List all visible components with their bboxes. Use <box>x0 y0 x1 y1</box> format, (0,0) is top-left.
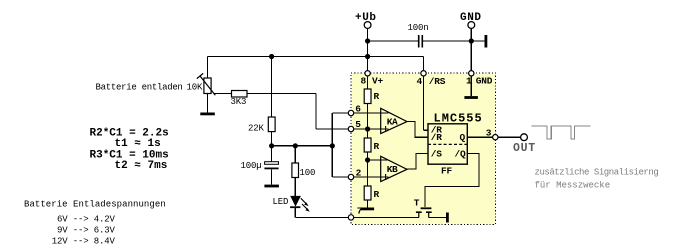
svg-text:12V --> 8.4V: 12V --> 8.4V <box>52 237 116 247</box>
GND rail bar (transistor source) <box>446 213 449 223</box>
svg-text:100: 100 <box>300 168 316 178</box>
pin 5 <box>348 126 353 131</box>
svg-text:/R: /R <box>431 132 443 143</box>
svg-text:8: 8 <box>361 76 367 87</box>
flip-flop FF box <box>428 124 467 177</box>
svg-text:100n: 100n <box>408 23 429 33</box>
resistor R 3K3 <box>232 91 248 98</box>
battery discharge voltages text block <box>24 200 166 247</box>
svg-text:2: 2 <box>356 168 362 179</box>
wire pin7 inside to transistor drain <box>351 216 419 218</box>
node 22K/C1 <box>269 143 274 148</box>
pin 1 <box>469 71 474 76</box>
node +Ub/pot rail <box>365 54 370 59</box>
wire cap to GND node <box>423 40 471 42</box>
wire bus node row <box>272 145 333 147</box>
wire chain tap to KB minus <box>368 159 389 161</box>
svg-text:7: 7 <box>357 206 363 217</box>
wire chain R3 to internal ground <box>367 200 369 208</box>
wire pin4 into FF R1 input <box>424 129 429 131</box>
svg-text:OUT: OUT <box>513 142 536 155</box>
resistor R 100 <box>292 163 299 178</box>
capacitor C1 100u <box>264 162 278 170</box>
wire LED to pin 7 <box>295 216 351 218</box>
wire chain R1-R2 <box>367 104 369 139</box>
wire pin 3 to OUT terminal <box>495 136 521 138</box>
wire KA output to FF <box>407 122 429 138</box>
wire +Ub rail to potentiometer <box>208 56 424 58</box>
svg-text:R: R <box>374 189 380 200</box>
svg-text:22K: 22K <box>248 124 265 134</box>
transistor T (discharge MOSFET) <box>414 197 432 217</box>
svg-text:KB: KB <box>387 164 398 175</box>
wire rail corner down to pin 4 <box>423 57 425 74</box>
svg-text:5: 5 <box>355 119 361 130</box>
pin 3 <box>493 135 498 140</box>
op-amp comparator KB <box>381 156 407 181</box>
svg-text:R: R <box>374 141 380 152</box>
svg-text:3K3: 3K3 <box>231 97 247 107</box>
wire +Ub vertical bus to pin 8 <box>367 28 369 73</box>
svg-text:10K: 10K <box>187 83 204 93</box>
svg-text:t2 ≈ 7ms: t2 ≈ 7ms <box>115 160 168 172</box>
formulas text block <box>90 127 169 172</box>
svg-text:/Q: /Q <box>455 148 467 159</box>
pin 4 <box>421 71 426 76</box>
wire GND node to rail bar <box>471 40 484 42</box>
wire resistor chain pin8 to R top <box>367 73 369 89</box>
svg-text:Q: Q <box>460 132 466 143</box>
wire KB output to FF /S <box>406 153 428 169</box>
node rail/22K <box>269 54 274 59</box>
node bus/R100 <box>293 143 298 148</box>
terminal +Ub <box>364 22 371 29</box>
svg-text:4: 4 <box>417 76 423 87</box>
pin 8 <box>365 71 370 76</box>
wire wiper to R 3K3 <box>214 93 232 95</box>
svg-text:T: T <box>414 197 420 208</box>
wire bus to cap C1 100u <box>271 146 273 162</box>
terminal GND <box>468 22 475 29</box>
junction dots <box>269 38 474 162</box>
wire pin6 inside to comparator KA minus <box>351 112 388 114</box>
svg-text:/S: /S <box>431 148 443 159</box>
ground (R chain inside IC) <box>361 208 375 211</box>
pin 6 <box>348 110 353 115</box>
ground (cap 100u) <box>264 185 279 188</box>
svg-text:KA: KA <box>387 116 398 127</box>
svg-text:FF: FF <box>441 166 453 177</box>
node divider/pin5 <box>365 126 370 131</box>
svg-text:V+: V+ <box>372 76 384 87</box>
wire bus to R 100 <box>294 146 296 163</box>
node GND/C100n <box>469 38 474 43</box>
wire corner down to pin5 row <box>315 94 317 130</box>
wire pin 4 /RS down <box>423 73 425 130</box>
wire 22K bottom to bus node <box>271 132 273 146</box>
svg-text:t1 ≈ 1s: t1 ≈ 1s <box>115 138 161 150</box>
svg-text:1: 1 <box>466 76 472 87</box>
svg-text:LMC555: LMC555 <box>434 112 483 126</box>
IC U1 LMC555 dashed body box <box>351 73 496 225</box>
pin 2 <box>348 174 353 179</box>
svg-text:für Messzwecke: für Messzwecke <box>535 181 611 191</box>
ground (pot) <box>200 113 215 116</box>
wire transistor source to rail bar <box>429 216 446 218</box>
potentiometer P1 10K body <box>197 73 216 95</box>
svg-text:6: 6 <box>355 103 361 114</box>
op-amp comparator KA <box>381 108 407 133</box>
wire LED cathode down <box>294 208 296 218</box>
svg-text:R: R <box>374 91 380 102</box>
wire chain R2-R3 <box>367 152 369 186</box>
svg-text:+Ub: +Ub <box>355 12 377 24</box>
wire to pin 5 <box>316 128 351 130</box>
svg-text:GND: GND <box>460 12 482 24</box>
svg-text:GND: GND <box>476 76 493 87</box>
wire GND vertical to pin 1 <box>470 28 472 73</box>
terminal OUT <box>521 134 528 141</box>
resistor R 22K <box>268 117 275 132</box>
node divider/KB minus <box>365 157 370 162</box>
wire pin1 to internal ground <box>470 73 472 96</box>
wire to pin 6 <box>332 112 351 114</box>
svg-text:9V --> 6.3V: 9V --> 6.3V <box>57 226 116 236</box>
ground (pin 1 inside IC) <box>464 96 478 99</box>
pin 7 <box>348 215 353 220</box>
resistor R (upper, divider) <box>364 89 371 104</box>
node +Ub/C100n <box>365 38 370 43</box>
wire branch vertical pin6-pin2 <box>331 113 333 177</box>
wire R 100 to LED <box>294 178 296 197</box>
svg-text:zusätzliche Signalisierng: zusätzliche Signalisierng <box>535 168 659 178</box>
svg-text:100µ: 100µ <box>241 161 262 171</box>
wire top rail through C 100n <box>368 40 418 42</box>
resistor R (lower, divider) <box>364 186 371 200</box>
wire FF /Q to transistor gate <box>425 153 479 206</box>
resistor R (middle, divider) <box>364 138 371 152</box>
svg-text:3: 3 <box>486 128 492 139</box>
svg-text:LED: LED <box>273 197 289 207</box>
svg-text:6V --> 4.2V: 6V --> 4.2V <box>57 214 116 224</box>
wire cap C1 bottom to ground <box>271 169 273 184</box>
wire FF Q to pin 3 <box>467 136 495 138</box>
wire pin2 inside to comparator KB plus <box>351 176 388 178</box>
wire pin5 inside to comparator KA plus <box>351 128 388 130</box>
wire 22K top to rail <box>271 57 273 118</box>
svg-text:Batterie entladen: Batterie entladen <box>96 83 183 93</box>
node bus/branch <box>330 143 335 148</box>
svg-text:Batterie Entladespannungen: Batterie Entladespannungen <box>24 200 166 210</box>
wire pot bottom to ground <box>207 94 209 113</box>
capacitor C 100n plates <box>419 35 423 48</box>
GND rail bar (top right) <box>485 35 488 48</box>
waveform pulse diagram <box>532 126 591 139</box>
wire pot top <box>207 57 209 79</box>
LED D1 <box>290 196 310 212</box>
wire to pin 2 <box>332 176 351 178</box>
svg-text:/RS: /RS <box>429 76 446 87</box>
wire 3K3 to corner <box>247 93 316 95</box>
